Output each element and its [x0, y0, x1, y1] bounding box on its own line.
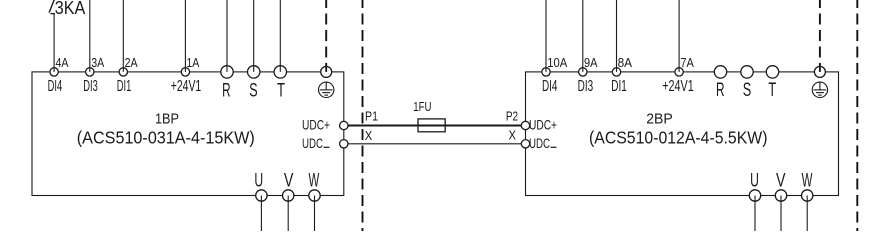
svg-text:S: S [249, 80, 258, 101]
svg-text:P1: P1 [365, 108, 378, 123]
svg-text:T: T [277, 80, 285, 101]
svg-text:W: W [309, 170, 320, 191]
svg-text:2A: 2A [125, 55, 138, 70]
svg-text:UDC: UDC [302, 135, 323, 151]
svg-text:DI3: DI3 [83, 78, 98, 95]
svg-text:1FU: 1FU [413, 99, 431, 114]
svg-text:V: V [776, 170, 786, 191]
svg-text:R: R [222, 80, 231, 101]
svg-text:UDC: UDC [529, 135, 550, 151]
svg-text:DI1: DI1 [611, 78, 627, 95]
svg-text:(ACS510-012A-4-5.5KW): (ACS510-012A-4-5.5KW) [589, 128, 768, 148]
svg-text:4A: 4A [56, 55, 69, 70]
svg-text:UDC+: UDC+ [529, 116, 557, 132]
svg-text:P2: P2 [506, 108, 518, 123]
svg-text:W: W [802, 170, 813, 191]
svg-text:1BP: 1BP [155, 112, 179, 128]
svg-text:V: V [284, 170, 294, 191]
svg-text:3A: 3A [91, 55, 104, 70]
svg-text:DI3: DI3 [578, 78, 594, 95]
svg-text:7A: 7A [680, 55, 694, 70]
svg-text:+24V1: +24V1 [662, 78, 694, 95]
svg-text:UDC+: UDC+ [302, 116, 330, 132]
svg-text:+24V1: +24V1 [171, 78, 202, 95]
svg-text:T: T [768, 80, 776, 101]
svg-text:3KA: 3KA [55, 0, 86, 18]
svg-text:S: S [743, 80, 752, 101]
svg-text:DI4: DI4 [542, 78, 558, 95]
svg-text:(ACS510-031A-4-15KW): (ACS510-031A-4-15KW) [77, 128, 255, 148]
svg-text:DI1: DI1 [117, 78, 132, 95]
svg-text:DI4: DI4 [48, 78, 63, 95]
svg-text:U: U [750, 170, 759, 191]
svg-text:1A: 1A [186, 55, 199, 70]
svg-text:X: X [509, 128, 517, 143]
svg-text:X: X [365, 128, 373, 143]
svg-text:2BP: 2BP [646, 112, 673, 128]
svg-text:9A: 9A [584, 55, 598, 70]
svg-text:10A: 10A [547, 55, 567, 70]
svg-text:U: U [254, 170, 263, 191]
svg-text:R: R [716, 80, 725, 101]
svg-text:8A: 8A [618, 55, 633, 70]
